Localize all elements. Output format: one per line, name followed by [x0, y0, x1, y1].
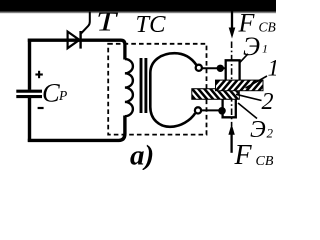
- wire: bottom terminal to lower electrode: [201, 109, 223, 111]
- svg-text:а): а): [130, 139, 154, 170]
- dashed enclosure box of welding transformer: [108, 44, 206, 135]
- junction dot lower: [218, 107, 226, 115]
- transformer core bar left: [140, 58, 143, 113]
- force arrow FSV top (downward): [231, 11, 233, 29]
- secondary terminal circle top: [196, 65, 202, 71]
- junction dot upper: [217, 65, 224, 72]
- leader line to workpiece label 1: [246, 76, 268, 88]
- top black header bar: [0, 0, 276, 11]
- thyristor T cathode bar: [79, 31, 81, 49]
- secondary terminal circle bottom: [195, 107, 201, 113]
- weld centerline (dash-dot): [231, 42, 233, 127]
- svg-text:Э: Э: [243, 32, 260, 61]
- svg-text:CB: CB: [259, 20, 276, 35]
- svg-text:CB: CB: [256, 154, 274, 169]
- svg-text:P: P: [58, 88, 67, 103]
- transformer TC primary winding: [125, 59, 133, 116]
- workpiece 1 (upper sheet, hatched): [212, 79, 272, 92]
- wire: left vertical lower segment: [28, 98, 31, 142]
- electrode E2 (lower): [223, 99, 236, 117]
- svg-text:Э: Э: [250, 117, 266, 143]
- wire: top terminal to upper electrode: [202, 67, 226, 69]
- leader line to workpiece label 2: [236, 94, 262, 100]
- plus polarity mark: [35, 71, 42, 78]
- force arrow FSV bottom (upward): [230, 134, 232, 153]
- capacitor CP bottom plate: [16, 95, 42, 98]
- svg-text:1: 1: [268, 55, 277, 81]
- transformer TC secondary single-turn loop: [150, 53, 196, 127]
- wire: left vertical upper segment: [28, 39, 31, 90]
- workpiece 2 (lower sheet, hatched): [188, 88, 248, 101]
- thyristor T triangle: [68, 32, 80, 49]
- leader line to electrode label E1: [240, 54, 249, 63]
- svg-text:C: C: [42, 78, 60, 108]
- svg-text:F: F: [234, 140, 253, 170]
- transformer core bar right: [144, 58, 147, 113]
- leader line to electrode label E2: [238, 103, 257, 119]
- svg-text:T: T: [96, 5, 118, 36]
- thyristor T gate lead: [81, 12, 90, 34]
- wire: bottom wire with rounded corner up to coil: [28, 116, 125, 141]
- capacitor CP top plate: [16, 90, 42, 93]
- wire: top wire with corner down into transformer box: [28, 40, 125, 59]
- minus polarity mark: [38, 107, 44, 109]
- svg-text:1: 1: [262, 42, 268, 56]
- electrode E1 (upper): [226, 60, 240, 81]
- svg-text:2: 2: [262, 89, 274, 115]
- svg-text:TC: TC: [136, 11, 167, 38]
- svg-text:2: 2: [267, 126, 274, 141]
